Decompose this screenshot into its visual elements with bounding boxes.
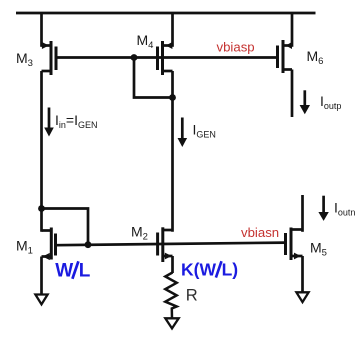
resistor R: [165, 273, 176, 319]
arrow current IGEN: [178, 118, 188, 148]
label Iin=IGEN: [55, 112, 98, 130]
svg-text:M2: M2: [131, 224, 148, 243]
arrow current Ioutp: [300, 90, 310, 114]
wire M1 diode connection drain-to-gate: [42, 209, 89, 246]
transistor M3: [42, 41, 57, 75]
transistor M2: [158, 227, 173, 262]
ground M5: [296, 292, 308, 302]
svg-text:M3: M3: [16, 50, 33, 69]
label Ioutn: [334, 200, 355, 218]
node M1 gate junction: [85, 241, 92, 248]
label vbiasp: [217, 40, 255, 55]
ground resistor: [165, 318, 178, 328]
transistor M4: [158, 41, 173, 75]
svg-text:W: W: [55, 261, 73, 282]
label M6: [307, 48, 324, 67]
arrow current Iin=IGEN: [44, 108, 54, 137]
wire M4 source to rail: [171, 13, 174, 47]
svg-text:L: L: [79, 261, 91, 282]
wire M6 source to rail: [291, 13, 294, 47]
node A M3 drain / M1 drain / diode loop junction: [38, 205, 45, 212]
wire gate rail M3-M4-M6 (vbiasp net): [56, 56, 278, 59]
label M1: [16, 238, 33, 257]
svg-text:L): L): [222, 260, 239, 280]
wire M3 drain down to node A: [40, 71, 43, 232]
wire M5 drain output: [301, 195, 304, 232]
svg-text:vbiasn: vbiasn: [241, 225, 279, 240]
wire M2 source to resistor: [171, 256, 174, 273]
svg-text:M6: M6: [307, 48, 324, 67]
ground M1: [35, 295, 47, 305]
label Ioutp: [320, 93, 341, 111]
svg-text:M1: M1: [16, 238, 33, 257]
label M5: [310, 240, 327, 259]
node gate of M3/M4 junction: [131, 54, 138, 61]
wire M3 source to rail: [40, 13, 43, 47]
label M2: [131, 224, 148, 243]
label K(W/L): [181, 260, 238, 280]
wire gate rail M1-M2-M5 (vbiasn net): [56, 243, 286, 246]
wire M4 diode connection gate-to-drain: [134, 58, 173, 98]
svg-text:M5: M5: [310, 240, 327, 259]
wire M6 drain output: [291, 70, 294, 118]
node M4 drain junction: [169, 94, 176, 101]
svg-text:Ioutn: Ioutn: [334, 200, 355, 218]
label IGEN: [193, 122, 216, 140]
wire M4 drain down to M2 drain: [171, 71, 174, 232]
svg-text:vbiasp: vbiasp: [217, 40, 255, 55]
svg-text:R: R: [186, 287, 198, 305]
label W/L: [55, 261, 90, 282]
svg-text:Iin=IGEN: Iin=IGEN: [55, 112, 98, 130]
label R: [186, 287, 198, 305]
label M4: [137, 32, 154, 51]
label M3: [16, 50, 33, 69]
label vbiasn: [241, 225, 279, 240]
arrow current Ioutn: [318, 196, 328, 221]
svg-text:IGEN: IGEN: [193, 122, 216, 140]
svg-text:Ioutp: Ioutp: [320, 93, 341, 111]
wire VDD top rail: [16, 12, 316, 15]
svg-text:K(W: K(W: [181, 260, 216, 280]
svg-text:M4: M4: [137, 32, 154, 51]
transistor M6: [278, 40, 293, 73]
transistor M5: [286, 228, 303, 261]
wire M1 source to ground: [40, 257, 43, 295]
transistor M1: [42, 228, 56, 261]
wire M5 source to ground: [301, 256, 304, 292]
